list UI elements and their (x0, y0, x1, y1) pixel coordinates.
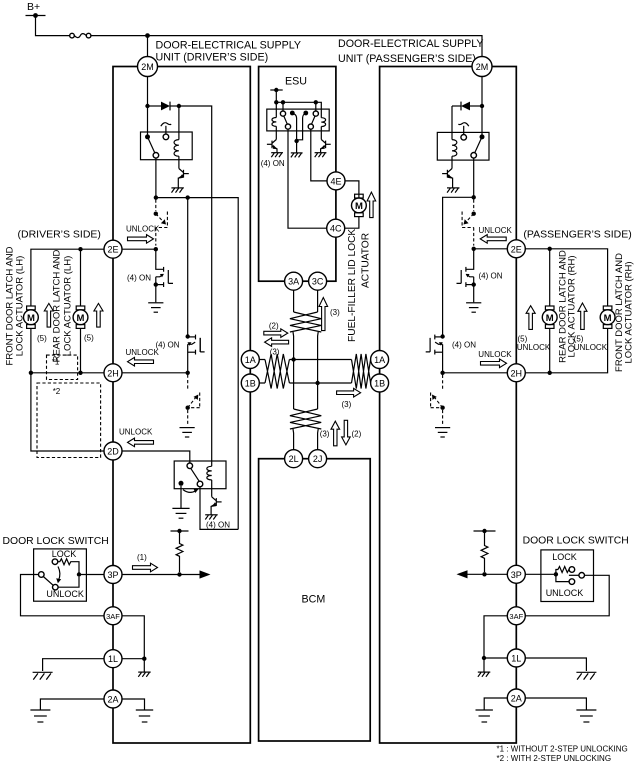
relay K4 passenger box (437, 132, 489, 160)
wire ESU left output to 4C (288, 129, 327, 228)
relay K1 fixed contact stem (165, 126, 167, 134)
junction driver diode branch (145, 104, 149, 108)
svg-text:2E: 2E (511, 244, 522, 254)
junction ESU center ground node (294, 139, 298, 143)
ground mosfet Q2 (148, 303, 163, 312)
connector 2D driver (104, 442, 122, 460)
svg-text:1B: 1B (245, 379, 256, 389)
wire relay output row to mosfet drop passenger (443, 197, 474, 336)
relay K3 left pivot (280, 111, 285, 116)
wire to diode (passenger) (470, 105, 482, 107)
relay K4 moving arm (475, 137, 482, 153)
ground ESU right transistor (315, 153, 327, 158)
connector 2E driver (104, 240, 122, 258)
svg-text:M: M (77, 313, 85, 324)
svg-text:2J: 2J (313, 454, 323, 464)
svg-text:UNLOCK: UNLOCK (479, 226, 513, 235)
ground passenger relay transistor (447, 188, 460, 193)
junction R2 to 3P row (482, 572, 486, 576)
relay K2 output contact (197, 481, 203, 487)
relay K2 moving arm (191, 468, 200, 481)
svg-text:*2: *2 (53, 387, 61, 396)
fuse in B+ line (70, 33, 91, 38)
svg-text:LOCK ACTUATOR (RH): LOCK ACTUATOR (RH) (567, 255, 578, 357)
arrow up left of front motor RH (578, 303, 587, 329)
wire rear motor RH top leg (549, 249, 551, 306)
ground 1L right bold passenger (576, 672, 596, 679)
svg-text:1L: 1L (511, 654, 521, 664)
svg-text:LOCK ACTUATOR (LH): LOCK ACTUATOR (LH) (63, 256, 74, 356)
wire node to center ground (296, 141, 298, 153)
svg-text:(4) ON: (4) ON (127, 274, 151, 283)
arrow unlock left at 2H driver (128, 357, 154, 366)
diode D1 driver (points right) (161, 102, 179, 111)
wire 2E row passenger (474, 248, 507, 250)
box BCM (259, 459, 371, 741)
wire K2 coil to transistor Q4 (211, 480, 213, 497)
wire rear motor bottom leg (80, 328, 82, 372)
arrow (3) right at 1B right (337, 388, 361, 397)
svg-text:(2): (2) (352, 429, 362, 438)
connector 1B right (371, 374, 389, 392)
svg-text:3AF: 3AF (106, 612, 120, 621)
box ESU (259, 67, 336, 282)
relay K1 output contact (153, 153, 159, 159)
wire 2A left to ground (40, 699, 104, 710)
wire relay output down to bus row (155, 158, 157, 198)
svg-text:3P: 3P (107, 570, 118, 580)
wire fuse to passenger 2M drop (91, 36, 482, 57)
wire 3P row left with end arrow passenger (466, 573, 507, 575)
junction switch node passenger (554, 572, 558, 576)
svg-text:2H: 2H (511, 368, 523, 378)
svg-text:2L: 2L (289, 454, 299, 464)
svg-text:1A: 1A (245, 355, 256, 365)
wire 2H row left (31, 372, 104, 374)
svg-text:2D: 2D (107, 447, 119, 457)
wire 2A left to ground passenger (484, 698, 507, 710)
wire 1L left to 3AF drop passenger (484, 657, 507, 659)
relay K3 ESU box (267, 109, 329, 131)
wire diode node right then down to bottom-relay coil (179, 106, 212, 466)
wire switch common to 3AF (21, 575, 105, 616)
arrow unlock left at 2D driver (128, 438, 154, 447)
ESU supply terminal bar (270, 88, 282, 92)
terminal bar above resistor R2 (474, 529, 496, 533)
battery terminal B+ (26, 15, 46, 17)
connector 2M driver (138, 57, 158, 77)
connector 2H driver (104, 364, 122, 382)
wire junction down to ground (143, 659, 145, 672)
connector 2E passenger (507, 240, 525, 258)
wire 2A right to ground (122, 699, 145, 710)
wire relay K4 output down (473, 158, 475, 197)
wire front motor bottom leg through 2H to 2D (31, 328, 104, 451)
motor M5 front door latch RH (600, 306, 615, 328)
junction relay output row left (154, 195, 158, 199)
switch SW2 unlock branch (556, 574, 569, 581)
arrow (2) right middle (264, 329, 288, 338)
wire lock branch to node (73, 562, 79, 573)
mosfet Q3 driver (4) ON at 2H (188, 335, 205, 373)
svg-text:M: M (604, 313, 612, 324)
relay K1 flick symbol (161, 123, 171, 127)
svg-text:(4) ON: (4) ON (452, 340, 476, 349)
switch SW2 unlock contact (569, 579, 575, 585)
wire B+ down and right to fuse (36, 16, 70, 36)
wire 3P to switch node passenger (525, 573, 556, 575)
mosfet Q9 passenger (4) ON at 2H (426, 335, 443, 373)
svg-text:DOOR-ELECTRICAL SUPPLY: DOOR-ELECTRICAL SUPPLY (156, 40, 302, 52)
relay K2 NC contact (179, 481, 184, 486)
relay K3 right output contact (308, 124, 313, 129)
svg-text:2A: 2A (511, 694, 522, 704)
svg-text:4E: 4E (330, 176, 341, 186)
junction R1 to 3P row (177, 572, 181, 576)
relay K1 coil (174, 140, 179, 157)
switch SW2 arm (569, 574, 579, 576)
svg-text:(PASSENGER’S SIDE): (PASSENGER’S SIDE) (523, 228, 631, 240)
wire switch node to 3P (79, 574, 104, 576)
connector 1L passenger (507, 649, 525, 667)
arrow up by rear motor (94, 303, 103, 327)
wire 1A row across (259, 359, 351, 361)
wire 2A right to ground passenger (525, 698, 586, 710)
junction 1A row at left pair wire (291, 357, 295, 361)
transistor Q5 ESU left (267, 140, 278, 153)
junction rear motor at 2H row (78, 371, 82, 375)
twisted pair right horizontal (352, 354, 371, 389)
svg-text:2H: 2H (107, 368, 119, 378)
wire bus to right pivot (315, 102, 317, 111)
dashed option box *2 (37, 383, 101, 458)
wire mosfet branch down (187, 198, 189, 337)
svg-text:(4) ON: (4) ON (479, 271, 503, 280)
arrow down (2) bottom (342, 420, 351, 445)
connector 2M passenger (472, 57, 492, 77)
wire right NC to center ground node (297, 113, 306, 140)
junction switch node to 3P (77, 572, 81, 576)
svg-text:LOCK ACTUATOR (LH): LOCK ACTUATOR (LH) (15, 256, 26, 356)
relay K4 output contact (471, 153, 477, 159)
svg-text:UNLOCK: UNLOCK (546, 588, 584, 598)
svg-text:3A: 3A (288, 277, 299, 287)
svg-text:(5): (5) (84, 334, 94, 343)
resistor in lock branch (58, 559, 73, 565)
wire ESU left coil to transistor Q5 (275, 126, 277, 139)
svg-text:REAR DOOR LATCH AND: REAR DOOR LATCH AND (52, 249, 63, 362)
wire to diode anode (148, 105, 162, 107)
arrowhead 3P wire driver (200, 570, 211, 578)
svg-text:(4) ON: (4) ON (206, 520, 230, 529)
relay K4 coil (452, 140, 457, 157)
svg-text:LOCK: LOCK (552, 552, 577, 562)
junction ESU bus left (274, 100, 278, 104)
junction 2E row driver (154, 247, 158, 251)
transistor Q6 ESU right (320, 140, 331, 153)
switch SW2 lock contact (569, 567, 575, 573)
junction 2H row driver (186, 371, 190, 375)
junction diode cathode / coil node (177, 104, 181, 108)
svg-text:4C: 4C (330, 224, 342, 234)
wire driver 2M down to relay (147, 77, 149, 137)
motor M3 fuel-filler lid lock actuator (352, 194, 367, 216)
svg-text:UNLOCK: UNLOCK (126, 225, 160, 234)
svg-text:2M: 2M (476, 62, 489, 72)
svg-text:ACTUATOR: ACTUATOR (361, 233, 372, 288)
relay K3 left coil (272, 118, 276, 127)
arrow unlock left at 2E passenger (480, 235, 506, 244)
arrow up (3) bottom (331, 421, 340, 446)
junction front motor at 2H row (29, 371, 33, 375)
wire 2H row passenger (443, 372, 507, 374)
junction relay output row passenger (472, 195, 476, 199)
arrow (1) right driver (133, 563, 158, 572)
box door lock switch driver (34, 549, 87, 601)
wire passenger 2M down to relay (481, 77, 483, 137)
wire 2E row right to motors passenger (525, 249, 608, 306)
svg-text:(DRIVER’S SIDE): (DRIVER’S SIDE) (18, 229, 101, 241)
svg-text:1L: 1L (108, 654, 118, 664)
svg-text:(5): (5) (37, 334, 47, 343)
connector 3P passenger (507, 565, 525, 583)
arrow (3) left middle (265, 338, 289, 347)
switch SW2 common contact (579, 573, 585, 579)
svg-text:UNLOCK: UNLOCK (574, 343, 608, 352)
relay K3 right coil (321, 118, 325, 127)
arrow up by fuel motor (367, 192, 376, 218)
switch SW1 unlock contact (53, 584, 59, 590)
wire junction down to ground passenger (483, 658, 485, 672)
junction rear motor RH at 2H row (548, 371, 552, 375)
svg-text:(2): (2) (269, 322, 279, 331)
ground 2A left driver (30, 710, 50, 722)
junction passenger diode branch (480, 104, 484, 108)
connector 3C (309, 272, 327, 290)
svg-text:M: M (27, 313, 35, 324)
wire 1L right to 3AF drop (122, 658, 144, 660)
wire K2 output to long riser (200, 487, 238, 530)
svg-text:BCM: BCM (302, 594, 326, 606)
arrowhead 3P wire passenger (457, 570, 468, 578)
ground 2A left passenger (476, 710, 493, 722)
wire 3P row right with end arrow (122, 574, 201, 576)
dashed latch switch S3 passenger upper (462, 200, 476, 246)
junction rear motor top tap (78, 247, 82, 251)
arrow up left of rear motor RH (526, 306, 535, 330)
transistor Q7 passenger relay driver (442, 169, 453, 188)
svg-text:*1 : WITHOUT 2-STEP UNLOCKING: *1 : WITHOUT 2-STEP UNLOCKING (497, 745, 628, 754)
transistor Q4 bottom relay driver (211, 497, 222, 515)
relay K2 coil (207, 466, 212, 480)
relay K3 left arm (284, 116, 288, 124)
connector 1A left (241, 351, 259, 369)
svg-text:DOOR LOCK SWITCH: DOOR LOCK SWITCH (3, 536, 109, 547)
wire fuel motor to 4C (345, 217, 359, 229)
svg-text:2A: 2A (107, 695, 118, 705)
ground driver relay transistor (171, 188, 184, 193)
svg-text:(3): (3) (342, 400, 352, 409)
wire bus to left pivot (282, 102, 284, 111)
connector 2A driver (104, 690, 122, 708)
wire coil to transistor Q7 (451, 156, 453, 168)
wire ESU supply down (275, 90, 277, 118)
ground ESU center (291, 153, 303, 158)
twisted pair left horizontal (265, 354, 289, 389)
connector 2L (285, 450, 303, 468)
ground 3AF/1L passenger (478, 672, 491, 677)
connector 4C (327, 219, 345, 237)
relay K3 right arm (312, 116, 316, 124)
motor M1 front door latch LH (24, 306, 39, 328)
wire 2E row left to motors (31, 249, 104, 306)
junction 2E row passenger (472, 247, 476, 251)
wire bus corner to right coil (316, 102, 322, 117)
svg-text:UNLOCK: UNLOCK (46, 589, 84, 599)
wire junction down to driver 2M (147, 36, 149, 57)
wire 1B row across (259, 382, 351, 384)
svg-text:UNLOCK: UNLOCK (478, 350, 512, 359)
wire 3AF right down to 1L row (122, 616, 144, 659)
ground dashed switch S2 (180, 428, 195, 437)
twisted pair upper vertical (290, 312, 321, 332)
dashed latch switch S2 driver lower (186, 375, 200, 426)
junction mosfet Q8 source (472, 282, 476, 286)
wire 2E row (circle to mosfet node) (122, 248, 156, 250)
arrow up (3) at 3C (319, 298, 328, 331)
junction 1L/3AF passenger (482, 656, 486, 660)
wire 4E to fuel motor (345, 181, 359, 198)
junction mosfet Q2 source (154, 282, 158, 286)
svg-text:*2 : WITH 2-STEP UNLOCKING: *2 : WITH 2-STEP UNLOCKING (497, 754, 612, 763)
dashed latch switch S1 driver upper (154, 200, 168, 246)
relay K3 right pivot (313, 111, 318, 116)
relay K1 common contact (from 2M) (145, 134, 150, 139)
wire twist down to 2L (292, 429, 295, 450)
svg-text:FUEL-FILLER LID LOCK: FUEL-FILLER LID LOCK (347, 229, 358, 342)
relay K4 common contact (480, 134, 485, 139)
svg-text:DOOR-ELECTRICAL SUPPLY: DOOR-ELECTRICAL SUPPLY (338, 38, 484, 50)
relay K1 fixed contact (163, 134, 169, 140)
svg-text:UNLOCK: UNLOCK (126, 348, 160, 357)
svg-text:UNLOCK: UNLOCK (517, 343, 551, 352)
wire 2H row circle to mosfet (122, 372, 188, 374)
svg-text:(4) ON: (4) ON (156, 340, 180, 349)
relay K2 driver bottom box (174, 461, 226, 489)
relay K4 fixed contact (461, 135, 467, 141)
svg-text:UNLOCK: UNLOCK (119, 428, 153, 437)
svg-text:3C: 3C (312, 277, 324, 287)
connector 2J (309, 450, 327, 468)
wire rear motor RH bottom leg (549, 328, 551, 372)
svg-text:1A: 1A (374, 355, 385, 365)
arrow unlock right at 2H passenger (481, 359, 507, 368)
ground relay K2 contact (172, 508, 189, 518)
resistor lock branch passenger (556, 567, 570, 575)
ground 1L left bold driver (33, 672, 53, 679)
svg-text:M: M (355, 201, 363, 212)
arrow unlock right at 2E driver (128, 235, 154, 244)
wire twist to 1A/1B rows left pair (293, 332, 318, 409)
junction mosfet Q3 drain (186, 334, 190, 338)
transistor Q1 driver relay driver (178, 169, 189, 188)
relay K3 right NC contact (303, 111, 308, 116)
svg-text:(3): (3) (320, 429, 330, 438)
switch SW1 common contact (39, 572, 45, 578)
svg-text:3AF: 3AF (509, 612, 523, 621)
connector 3AF passenger (507, 607, 525, 625)
svg-text:2M: 2M (141, 62, 154, 72)
dashed latch switch S4 passenger lower (431, 375, 445, 426)
wire 1L right to bold ground passenger (525, 658, 586, 671)
wire left NC to center ground node (292, 113, 296, 141)
motor M4 rear door latch RH (542, 306, 557, 328)
junction rear motor RH top tap (548, 247, 552, 251)
ground ESU left transistor (271, 153, 283, 158)
connector 3AF driver (104, 607, 122, 625)
wire diode to coil passenger (451, 106, 453, 140)
ground 3AF/1L driver (138, 672, 151, 677)
switch SW1 arm (43, 577, 53, 586)
ground Q4 (205, 515, 218, 520)
wire front motor RH bottom leg to 2H (525, 328, 608, 372)
relay K1 driver box (141, 132, 193, 160)
junction relay output row mosfet branch (186, 195, 190, 199)
connector 1B left (241, 374, 259, 392)
junction top wire to driver 2M (145, 33, 150, 38)
twisted pair lower vertical (290, 409, 321, 429)
wire Q2 source to ground (155, 285, 157, 303)
resistor R2 passenger (481, 531, 488, 572)
wire K2 NC contact to ground (180, 486, 182, 508)
svg-text:*1: *1 (52, 358, 60, 367)
wire 3C down to twist (317, 290, 319, 312)
svg-text:LOCK ACTUATOR (RH): LOCK ACTUATOR (RH) (623, 261, 634, 363)
motor M2 rear door latch LH (73, 306, 88, 328)
arrow up by front motor (44, 303, 53, 327)
diode D2 passenger (points left) (452, 102, 470, 111)
ground 2A right passenger (576, 710, 596, 722)
junction mosfet Q9 drain (440, 334, 444, 338)
wire ESU right coil to transistor Q6 (320, 127, 322, 140)
svg-text:(1): (1) (137, 553, 147, 562)
wire Q8 source to ground (473, 285, 475, 303)
mosfet Q8 passenger (4) ON at 2E (457, 249, 474, 287)
ground dashed switch S4 (435, 428, 450, 437)
connector 2A passenger (507, 689, 525, 707)
svg-text:M: M (546, 313, 554, 324)
wire 1L left to bold ground (43, 659, 104, 671)
junction 1B row at right pair wire (315, 381, 319, 385)
relay K4 flick symbol (458, 123, 468, 127)
svg-text:2E: 2E (107, 245, 118, 255)
junction 2H row passenger (440, 371, 444, 375)
wire unlock contact to node (58, 577, 79, 588)
connector 1L driver (104, 650, 122, 668)
wire diode node down to relay coil (178, 106, 180, 140)
wire 3A down to twist (293, 290, 295, 312)
svg-text:ESU: ESU (285, 76, 307, 88)
connector 1A right (371, 351, 389, 369)
wire 3AF left down to 1L row passenger (484, 616, 507, 658)
junction 1L/3AF (142, 657, 146, 661)
connector 3A (285, 272, 303, 290)
svg-text:1B: 1B (374, 379, 385, 389)
svg-text:B+: B+ (27, 1, 40, 13)
relay K1 moving arm (148, 137, 155, 153)
box door lock switch passenger (541, 550, 594, 602)
svg-text:3P: 3P (511, 570, 522, 580)
